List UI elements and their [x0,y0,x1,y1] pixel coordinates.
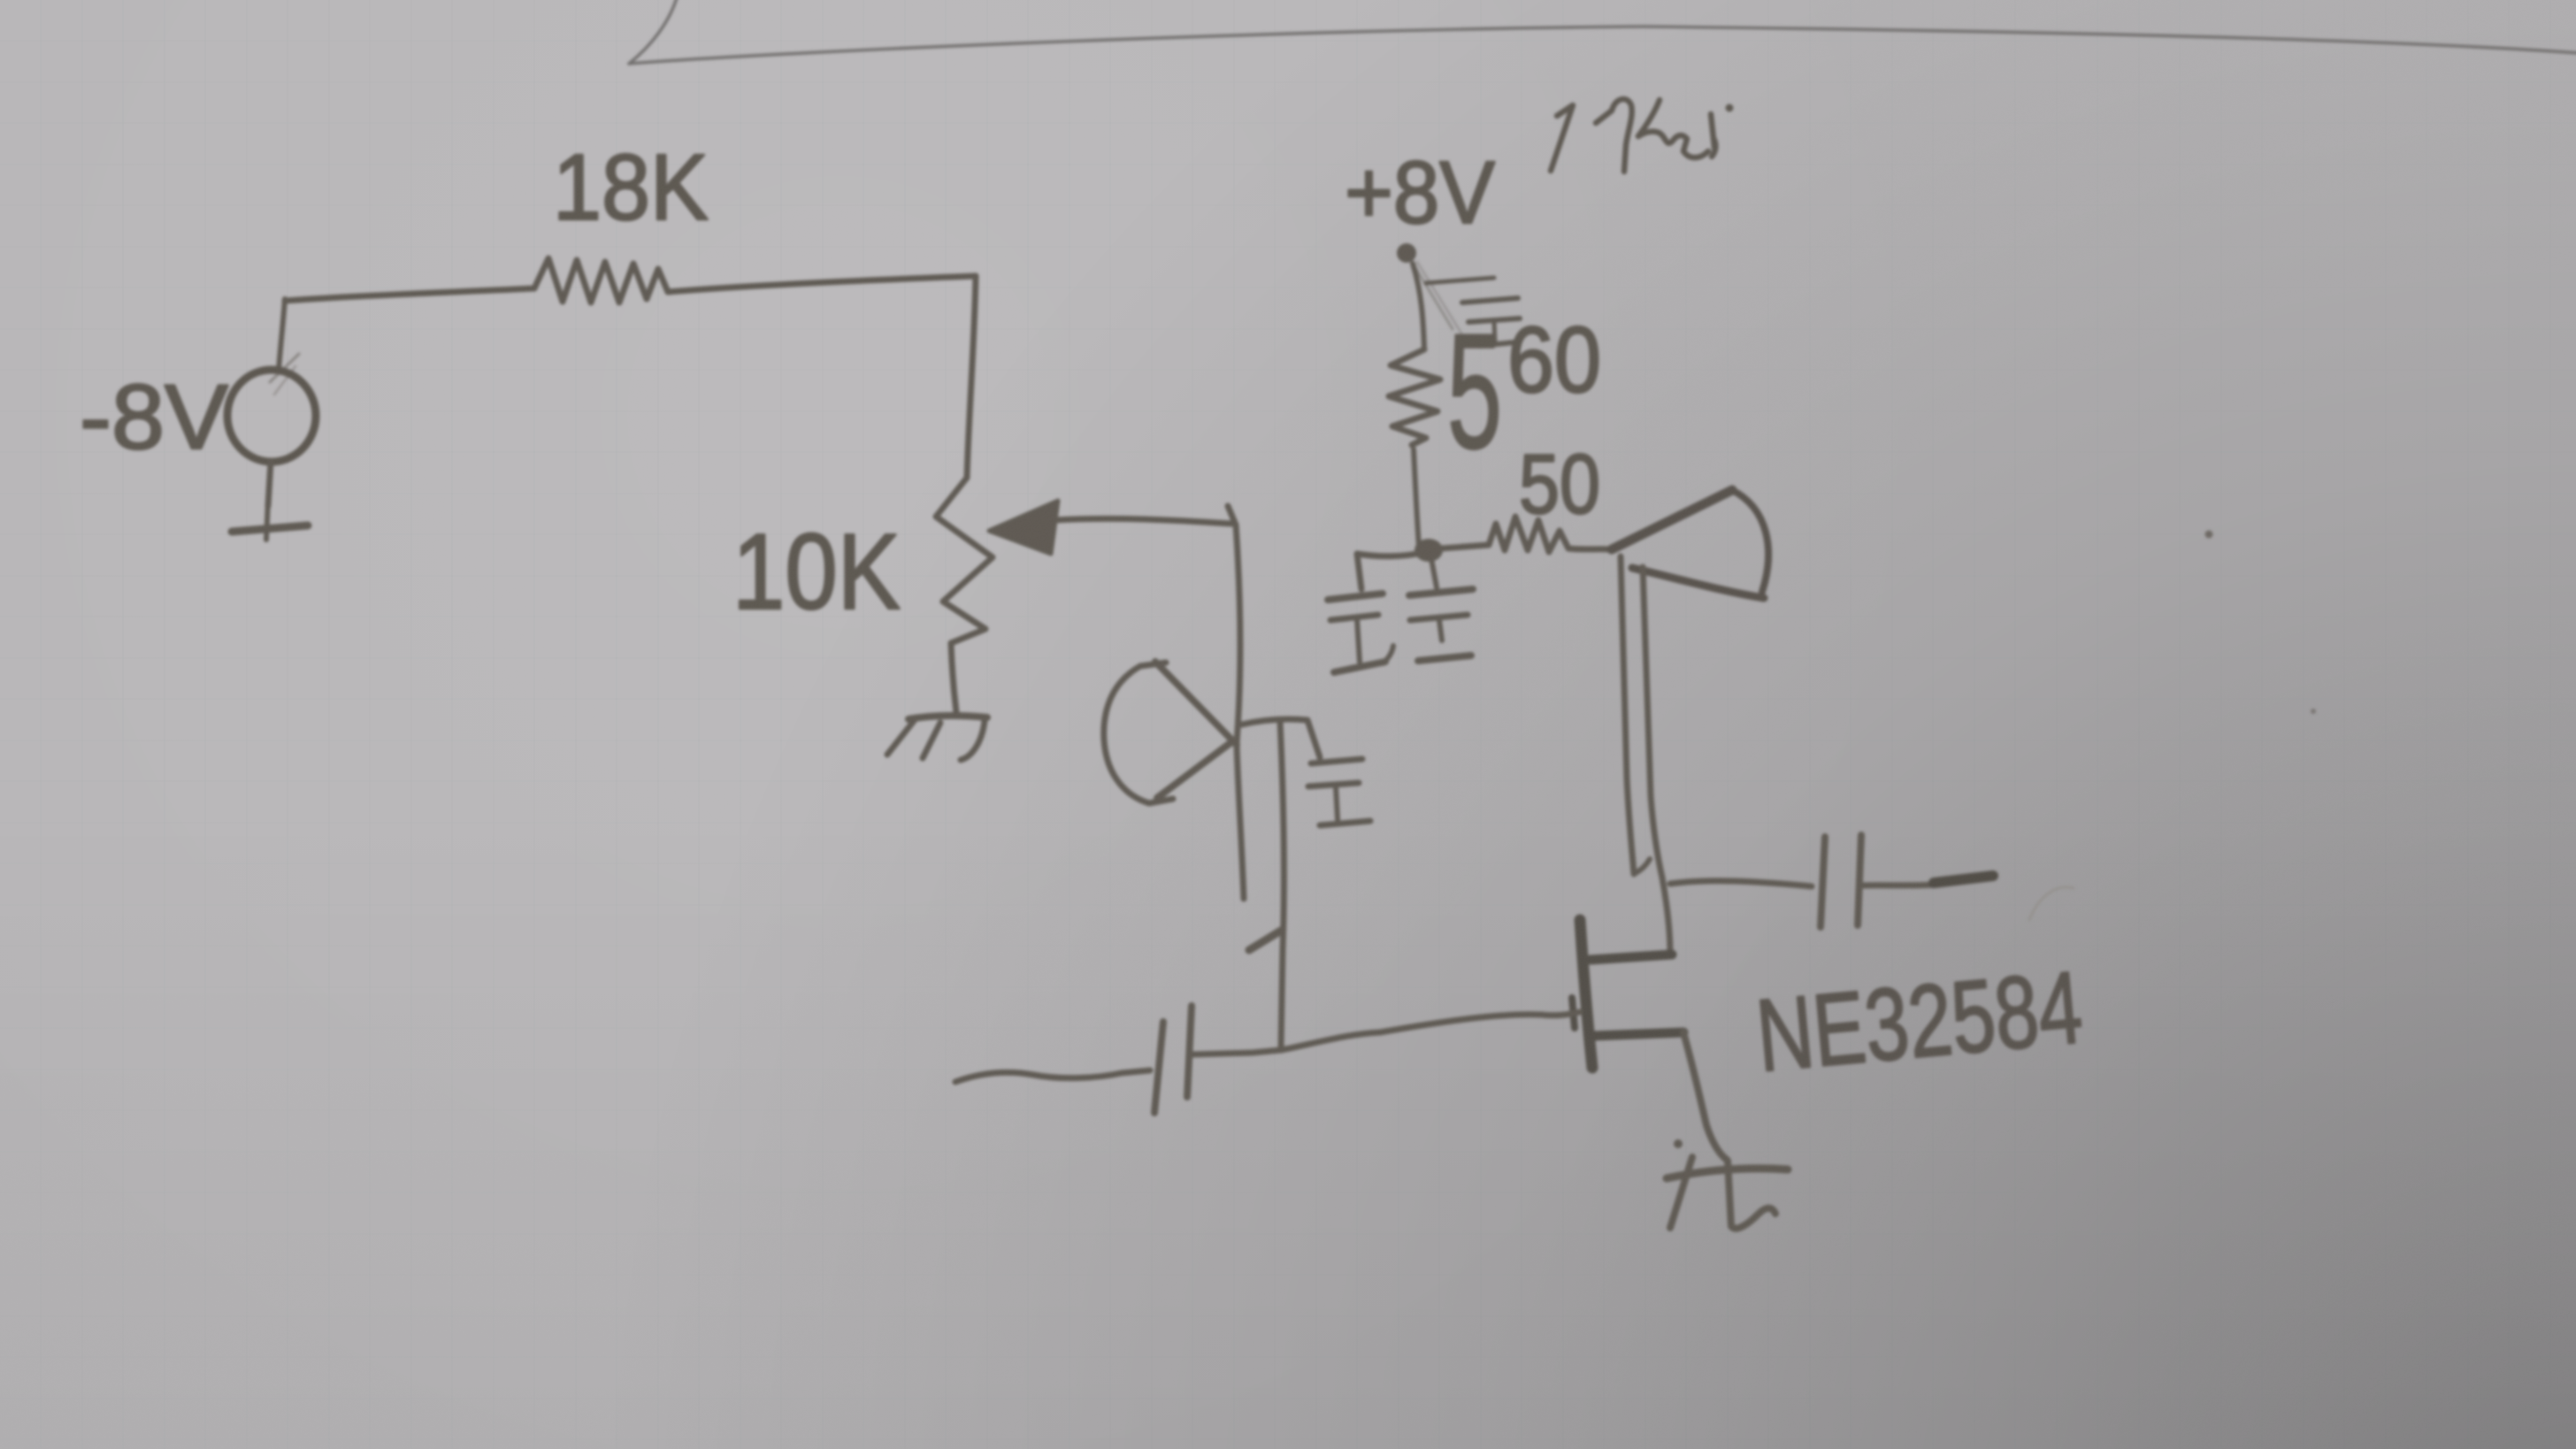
capacitor C1 (small bypass at +8V) [1426,278,1520,346]
transistor Q3 NE32584 (FET) [1572,920,1683,1068]
capacitor C6 (output) [1821,835,1861,927]
capacitor C3 (to ground, mid) [1308,759,1370,825]
wiper arrow of R2 [989,501,1058,554]
wires Q2 double vertical leads [1621,556,1634,874]
wire Q1 to capacitor C3 [1242,719,1320,757]
wire junction to left capacitor [1357,552,1426,589]
wire wiper to corner [1054,518,1231,524]
ground (below Q3, scribbled) [1667,1157,1788,1229]
wire right lead corner into Q3 drain [1662,878,1670,954]
wire from -8V source to R1 [285,288,534,301]
wire input (bottom left wavy) [955,1070,1150,1082]
ground (below -8V source) [266,501,268,540]
transistor Q2 (fan symbol) [1612,490,1768,598]
faint scratch curl [2029,887,2074,920]
transistor Q1 (bubble symbol) [1104,662,1237,803]
capacitor C4 (left of pair) [1328,594,1393,672]
capacitor C7 (input coupling) [1154,1006,1192,1113]
node +8V (dot) [1397,243,1416,263]
resistor R3 560 (vertical zigzag) [1389,349,1440,445]
wire R3 down to junction [1414,449,1419,547]
wire vertical down to potentiometer [967,276,976,478]
capacitor C5 (right of pair) [1409,554,1473,661]
wire C6 to output stub [1861,885,1934,885]
wire Q1 emitter (right lead with arrow) down to node [1280,721,1284,1049]
potentiometer R2 10K (vertical zigzag) [936,478,993,712]
resistor R4 50 (horizontal squiggle) [1429,517,1612,552]
paper edge line (top, lighter pencil) [629,0,2576,64]
wire V1 to ground [268,462,271,506]
wire C7 to node under Q1 [1192,1050,1281,1054]
wire +8V node down to R3 [1413,264,1424,349]
wire Q1 down-left lead [1237,746,1244,899]
wire R1 to top-right corner [668,276,976,292]
node: wire stub from -8V circle to top wire [279,299,285,370]
handwritten scribble (18hi) top right [1551,99,1715,172]
stray dot right side [2205,531,2213,539]
faint scratches from node [1412,262,1453,329]
voltage source V1 (-8V circle) [227,370,316,462]
wire Q3 source down to ground [1683,1032,1727,1160]
resistor R1 18K (zigzag) [534,258,668,303]
wire Q3 drain to output capacitor [1670,881,1812,886]
node junction (dot) [1414,539,1443,562]
wire node to Q3 gate [1281,1012,1580,1050]
wire corner down to transistor Q1 base [1236,525,1240,743]
output stub (thick dash) [1934,876,1993,883]
ground (below potentiometer) [908,716,987,719]
